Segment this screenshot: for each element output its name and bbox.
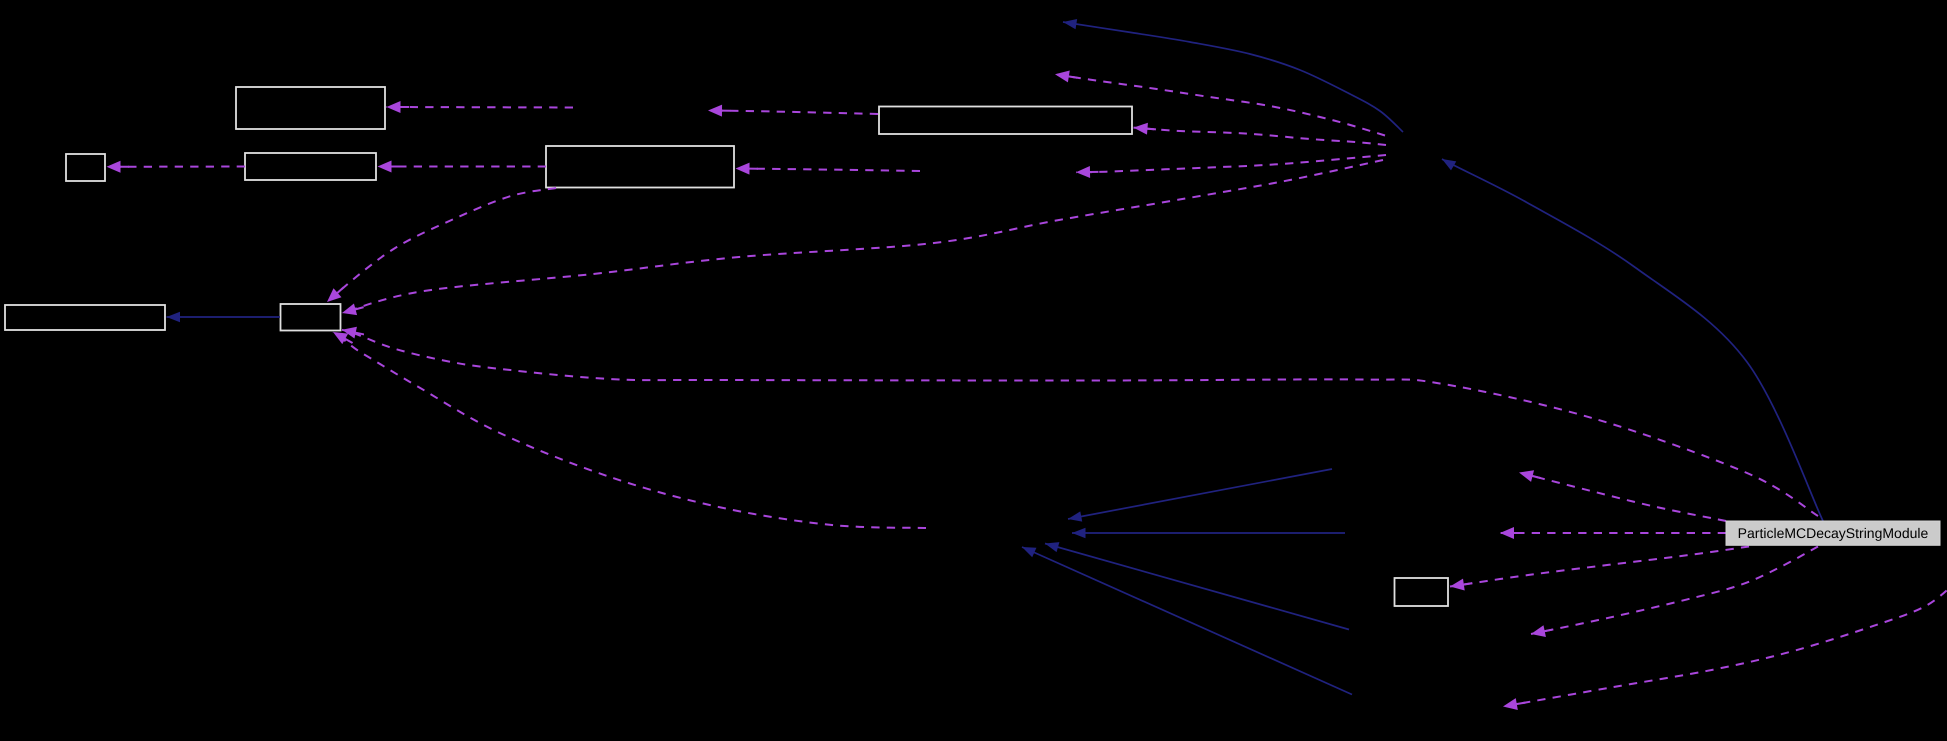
dashed edge ParticleMCDecayStringModule to invisible node (arrow at 1531,634) (1531, 547, 1818, 635)
node box B4 (two-line class) (546, 146, 734, 188)
solid blue edge hub to top invisible node (arrow at 1064,22.5) (1063, 22, 1403, 132)
node box B7 (small hub class) (281, 304, 341, 331)
node box B2 (small left class) (66, 154, 105, 181)
dashed edge ParticleMCDecayStringModule to invisible node (arrow at 1503,706.5) (1503, 580, 1947, 707)
solid blue edge B to bottom-middle invisible node (1072, 532, 1345, 534)
node box B3 (245, 153, 376, 180)
dashed edge B4 to B3 (378, 166, 547, 168)
dashed edge invisible node to B4 (736, 169, 921, 172)
node box B5 (wide top class) (879, 107, 1132, 135)
solid blue edge A to bottom-middle invisible node (1068, 469, 1332, 519)
svg-text:ParticleMCDecayStringModule: ParticleMCDecayStringModule (1738, 525, 1929, 541)
dashed edge bottom-middle tail to B7 (333, 332, 926, 528)
dashed edge ParticleMCDecayStringModule to B7 (long flat curve) (342, 330, 1818, 516)
dashed edge B4 to B7 (327, 188, 556, 302)
node box B8 (small bottom-right class) (1395, 578, 1449, 606)
dashed edge hub to B7 (long diagonal) (342, 160, 1383, 313)
solid blue edge ParticleMCDecayStringModule to hub (arrow at 1446,161) (1442, 159, 1823, 521)
dashed edge ParticleMCDecayStringModule to B8 (1450, 547, 1749, 587)
node box B6 (left middle class) (5, 305, 165, 330)
solid blue edge C to bottom-middle invisible node (1045, 544, 1349, 630)
dashed edge hub to B5 (1134, 128, 1387, 145)
dashed edge B3 to B2 (107, 166, 246, 168)
highlighted node ParticleMCDecayStringModule (1726, 521, 1940, 545)
dashed edge hub to invisible node (arrow at 1076,172.3) (1076, 155, 1386, 172)
dashed edge B5 to invisible node (arrow at 707,110.5) (708, 111, 878, 115)
dashed edge invisible node to B1 (387, 106, 574, 109)
dashed edge ParticleMCDecayStringModule to invisible node (arrow at 1518,472) (1519, 473, 1726, 522)
dashed edge hub to top invisible node (arrow at 1057,74.5) (1055, 74, 1385, 135)
solid blue edge D to bottom-middle invisible node (1022, 547, 1352, 695)
solid blue edge B7 to B6 (167, 316, 281, 318)
dashed edge ParticleMCDecayStringModule to invisible node (arrow at 1499,533) (1500, 532, 1726, 534)
node box B1 (top-left two-line class) (236, 87, 385, 129)
